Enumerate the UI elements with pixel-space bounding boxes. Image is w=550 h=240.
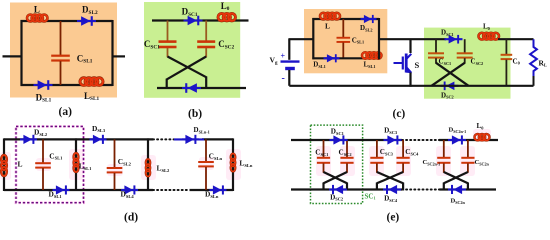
diode DSC2 (c)	[441, 82, 459, 100]
capacitor CSL1 (c)	[337, 19, 365, 58]
wire: (c) top rail middle segment	[379, 38, 446, 40]
wire: (d) left rail	[3, 138, 5, 191]
svg-text:CSL1: CSL1	[49, 151, 63, 160]
wire: (a) right terminal stub	[113, 55, 126, 57]
wire: (b) cross link CSC2 to left stub	[167, 57, 207, 89]
capacitor label CSC2n (e)	[475, 159, 490, 166]
capacitor label CSC2n-1 (e)	[423, 159, 441, 166]
wire: (a) bottom rail	[21, 84, 113, 86]
pink halo highlights (e)	[316, 129, 491, 176]
svg-text:CSL2: CSL2	[118, 157, 132, 166]
svg-text:L: L	[325, 21, 330, 30]
svg-text:LSLn: LSLn	[239, 159, 252, 168]
wire: (c) top rail left segment	[288, 38, 313, 40]
svg-text:L: L	[34, 5, 40, 15]
capacitor CSL2 (d)	[107, 139, 132, 190]
capacitor C0 (c)	[501, 39, 520, 86]
svg-text:DSC2n: DSC2n	[451, 198, 466, 205]
caption (e)	[387, 212, 400, 224]
capacitor label CSC4 (e)	[405, 148, 419, 156]
svg-text:C0: C0	[513, 57, 520, 65]
wire: (c) cross link CSC1 to bottom	[436, 63, 469, 86]
svg-text:S: S	[415, 60, 420, 70]
diode DSL1 (a)	[34, 80, 53, 104]
capacitor CSLn (d)	[198, 139, 222, 190]
capacitor label CSC2 (e)	[339, 149, 352, 157]
svg-text:CSC3: CSC3	[380, 148, 394, 156]
svg-text:L: L	[18, 160, 23, 169]
panel (c) SC cell background box	[424, 28, 511, 99]
svg-text:DSC2n-1: DSC2n-1	[449, 127, 467, 134]
wire: (b) cross link CSC1 to right stub	[168, 57, 207, 89]
svg-text:DSLn-1: DSLn-1	[194, 126, 210, 134]
panel (c) SL cell background box	[304, 9, 387, 73]
wire: (a) left rail	[20, 20, 22, 86]
inductor L (d)	[1, 155, 22, 176]
svg-text:(e): (e)	[387, 212, 400, 224]
wire: (d) right rail LSLn	[232, 138, 234, 191]
diode (b) bottom freewheeling	[182, 83, 201, 93]
wire: (a) left terminal stub	[3, 55, 22, 57]
wire: (a) top rail	[21, 20, 113, 22]
inductor L (c)	[320, 13, 340, 31]
diode DSL2 (d)	[20, 128, 48, 144]
svg-text:CSC2n: CSC2n	[475, 159, 490, 166]
transistor S IGBT switch (c)	[394, 54, 420, 74]
capacitors and cross links cell 1 (e)	[317, 140, 354, 191]
diode DSC2n-1 (e)	[448, 127, 466, 145]
wire: (d) bottom rail dotted break	[153, 189, 190, 191]
svg-text:(c): (c)	[393, 108, 406, 120]
svg-text:(a): (a)	[59, 106, 73, 118]
wire: (c) SL cell left rail	[312, 18, 314, 59]
svg-text:DSC2: DSC2	[330, 193, 343, 201]
svg-text:CSC4: CSC4	[405, 148, 419, 156]
capacitors and cross links cell 2 (e)	[370, 140, 409, 191]
diode DSL4 (d)	[121, 185, 139, 199]
inductor LSLn (d)	[231, 154, 253, 172]
wire: (e) top rail solid right	[439, 139, 498, 141]
diode DSLn-1 (d)	[174, 126, 210, 144]
diode DSL2 (c)	[360, 15, 377, 33]
diode DSC1 (b)	[182, 6, 203, 25]
inductor L (a)	[27, 5, 47, 22]
inductor LSL1 (d)	[74, 153, 93, 172]
wire: (c) switch branch lower	[409, 73, 411, 87]
diode DSC4 (e)	[383, 185, 401, 203]
wire: (d) top rail solid right	[202, 138, 233, 140]
wire: (d) top rail dotted break	[153, 138, 174, 140]
svg-text:DSC3: DSC3	[384, 127, 398, 135]
capacitor CSL1 (d)	[35, 139, 63, 190]
inductor L0 (c)	[479, 23, 500, 40]
svg-text:CSLn: CSLn	[209, 152, 223, 161]
diode DSL2 (a)	[77, 5, 98, 26]
inductor LSL1 (c)	[362, 52, 381, 69]
inductor L0 (b)	[218, 1, 236, 21]
wire: (d) rail LSL1	[75, 138, 77, 191]
diode DSLn (d)	[205, 185, 227, 199]
wire: (c) cross link CSC2 to bottom	[432, 63, 465, 86]
wire: (c) SL cell top rail	[312, 18, 379, 20]
caption (a)	[59, 106, 73, 118]
svg-text:(d): (d)	[124, 212, 138, 224]
wire: (d) top rail solid left	[4, 138, 153, 140]
pink halo highlights (d)	[0, 149, 241, 180]
capacitor CSC2 (c)	[457, 39, 484, 66]
wire: (c) bottom rail	[289, 85, 533, 87]
caption (d)	[124, 212, 138, 224]
svg-text:RL: RL	[539, 58, 548, 67]
wire: (a) right rail	[111, 20, 113, 86]
wire: (e) bottom rail solid left	[291, 188, 402, 190]
wire: (c) SL cell bottom rail	[312, 57, 380, 59]
wire: (c) switch branch upper	[409, 39, 411, 53]
svg-text:-: -	[282, 73, 285, 84]
wire: (c) SL cell right rail	[378, 18, 380, 59]
svg-text:LSL1: LSL1	[79, 162, 92, 171]
wire: (d) bottom rail solid right	[190, 189, 234, 191]
diode DSC1 (c)	[441, 28, 463, 43]
capacitor CSC2 (b)	[197, 21, 234, 58]
wire: (b) bottom rail	[157, 87, 246, 89]
diode DSL3 (d)	[90, 124, 107, 144]
svg-text:DSL2: DSL2	[34, 128, 48, 137]
caption (c)	[393, 108, 406, 120]
svg-text:L0: L0	[483, 23, 490, 31]
diode DSC1 (e)	[330, 127, 348, 144]
diode DSL1 (d)	[49, 185, 70, 199]
label SC1 (e)	[365, 192, 376, 200]
svg-text:LSL2: LSL2	[157, 164, 170, 173]
wire: (d) rail LSL2	[147, 138, 149, 191]
voltage source Vg (c)	[270, 39, 300, 86]
inductor LSL1 (a)	[80, 78, 103, 102]
wire: (c) top rail right segment	[498, 38, 534, 40]
svg-text:L0: L0	[477, 122, 485, 130]
panel (a) switched-inductor cell background box	[10, 3, 117, 98]
capacitor CSC1 (c)	[428, 39, 451, 66]
diode DSL1 (c)	[313, 54, 339, 69]
inductor LSL2 (d)	[146, 159, 170, 177]
svg-text:+: +	[281, 52, 286, 61]
generalized SL cell dashed box (d)	[16, 126, 84, 202]
wire: (e) bottom rail solid right	[440, 188, 497, 190]
svg-text:Vg: Vg	[270, 56, 278, 66]
inductor L0 (e)	[475, 122, 490, 140]
diode DSC3 (e)	[384, 127, 402, 145]
capacitor label CSC3 (e)	[380, 148, 394, 156]
svg-text:DSC1: DSC1	[331, 127, 344, 135]
svg-text:DSC4: DSC4	[384, 195, 398, 203]
wire: (e) top rail solid left	[291, 139, 402, 141]
diode DSC2 (e)	[329, 185, 347, 202]
svg-text:DSL3: DSL3	[92, 124, 106, 133]
svg-text:SC1: SC1	[365, 192, 376, 200]
wire: (d) bottom rail solid left	[4, 189, 153, 191]
wire: (e) bottom rail dotted break	[402, 189, 440, 191]
capacitor CSL1 (a)	[51, 21, 93, 85]
panel (b) switched-capacitor cell background box	[144, 2, 240, 98]
capacitor CSC1 (b)	[144, 21, 177, 58]
diode DSC2n (e)	[448, 185, 466, 205]
svg-text:(b): (b)	[188, 108, 202, 120]
wire: (e) top rail dotted break	[402, 139, 439, 141]
caption (b)	[188, 108, 202, 120]
capacitors and cross links cell n (e)	[437, 140, 474, 191]
resistor RL (c)	[530, 39, 547, 86]
generalized SC cell dashed box SC1 (e)	[311, 125, 363, 203]
wire: (b) top rail	[152, 19, 249, 21]
capacitor label CSC1 (e)	[315, 149, 328, 157]
